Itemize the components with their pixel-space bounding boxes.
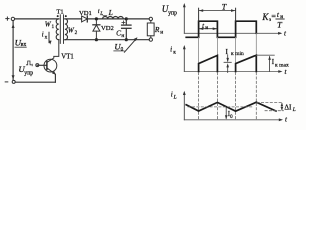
- svg-text:i: i: [42, 31, 44, 38]
- svg-text:и: и: [205, 25, 208, 31]
- svg-text:2: 2: [75, 30, 78, 36]
- label iL: [98, 8, 107, 17]
- wire bottom rail primary: [15, 81, 55, 83]
- svg-text:=: =: [271, 12, 276, 21]
- wire left vertical: [12, 21, 14, 81]
- terminal - of Uвх: [12, 80, 15, 83]
- dimension tи: [199, 22, 217, 31]
- wire secondary bottom rail: [65, 39, 149, 41]
- axis t bottom chart: [184, 115, 288, 123]
- arrow up on left wire: [12, 24, 15, 28]
- svg-text:упр: упр: [168, 10, 177, 16]
- diode VD1: [82, 16, 88, 22]
- waveform iк ramp2: [236, 55, 257, 71]
- label Cн: [116, 28, 124, 39]
- svg-text:к: к: [173, 49, 176, 55]
- arrow iк down: [49, 32, 52, 44]
- label U0: [114, 41, 124, 52]
- svg-text:i: i: [171, 90, 173, 98]
- capacitor Cн: [122, 21, 131, 39]
- label iк near W1: [42, 31, 48, 40]
- reference line iк max: [256, 54, 274, 56]
- label Uупр: [18, 64, 33, 76]
- dashed level valley: [265, 110, 283, 112]
- connector pulse1 rise to ramp: [198, 37, 200, 63]
- pulse glyph of control source: [26, 61, 31, 65]
- waveform iк ramp1: [199, 55, 218, 71]
- label W2: [68, 26, 78, 36]
- label iL waveform: [171, 90, 177, 100]
- diode VD2: [93, 21, 100, 39]
- dashed connector x4: [255, 73, 257, 120]
- wire base: [37, 64, 47, 66]
- label Uвх: [15, 38, 27, 48]
- terminal of control input: [36, 64, 39, 67]
- node junction VD2: [95, 17, 98, 20]
- plus sign of capacitor: [122, 21, 125, 24]
- dashed connector x2: [216, 73, 218, 120]
- axis t middle chart: [184, 68, 287, 76]
- wire secondary top: [65, 18, 82, 20]
- minus sign of input: [5, 81, 8, 83]
- dashed connector x3: [235, 73, 237, 120]
- dimension I0: [225, 107, 233, 120]
- node junction cap bottom: [125, 38, 128, 41]
- transformer T1 winding W1: [56, 19, 59, 40]
- terminal + of Uвх: [11, 17, 14, 20]
- node junction cap top: [125, 17, 128, 20]
- svg-text:1: 1: [52, 24, 55, 30]
- svg-text:i: i: [170, 46, 172, 54]
- formula Kз=tи/T: [261, 10, 284, 30]
- node junction VD2 bottom: [95, 38, 98, 41]
- connector pulse1 fall to ramp: [216, 37, 218, 55]
- svg-text:R: R: [154, 25, 160, 34]
- wire top rail primary: [15, 18, 59, 20]
- axis t top chart: [184, 30, 287, 38]
- label Uупр waveform: [162, 4, 177, 16]
- svg-text:к max: к max: [275, 62, 289, 68]
- svg-text:к min: к min: [231, 51, 244, 57]
- waveform Uупр: [186, 21, 256, 37]
- arrow down on left wire: [12, 75, 15, 79]
- svg-text:C: C: [116, 28, 121, 37]
- transistor VT1: [44, 40, 59, 82]
- dimension iк min: [224, 48, 244, 72]
- inductor L: [103, 16, 124, 18]
- svg-text:0: 0: [121, 47, 124, 53]
- label iк waveform: [170, 46, 176, 56]
- comma mark: [31, 64, 33, 66]
- dimension T: [199, 3, 236, 12]
- svg-text:упр: упр: [24, 70, 33, 76]
- svg-text:VD2: VD2: [101, 25, 114, 32]
- polarity dot W1: [57, 15, 59, 17]
- wire after VD1: [87, 18, 126, 20]
- axis y bottom chart: [183, 91, 186, 120]
- extension line pulse2 rise: [235, 8, 237, 21]
- connector pulse2 rise to ramp: [235, 37, 237, 63]
- dimension iк max: [268, 56, 289, 72]
- svg-text:VT1: VT1: [61, 53, 73, 60]
- dimension ΔIL: [281, 103, 296, 114]
- svg-text:L: L: [292, 107, 296, 113]
- transformer core: [60, 15, 63, 44]
- polarity dot W2: [65, 15, 67, 17]
- terminal output top: [149, 17, 152, 20]
- label Rн: [154, 25, 163, 36]
- svg-text:VD1: VD1: [79, 10, 92, 17]
- dashed connector x1: [198, 73, 200, 120]
- dashed level I0: [188, 106, 254, 108]
- svg-text:ΔI: ΔI: [284, 104, 292, 112]
- label W1: [45, 20, 55, 30]
- transformer winding W2: [65, 19, 68, 40]
- svg-text:н: н: [160, 29, 163, 35]
- svg-text:х: х: [45, 34, 48, 40]
- axis y top chart: [183, 3, 186, 33]
- svg-text:н: н: [121, 33, 124, 39]
- svg-text:T: T: [222, 3, 227, 12]
- wire to load top: [126, 18, 149, 20]
- plus sign of input: [6, 17, 9, 20]
- arrow U0: [124, 37, 137, 52]
- resistor Rн: [147, 21, 154, 38]
- connector pulse2 fall to ramp: [255, 33, 257, 55]
- waveform iL: [186, 102, 276, 111]
- axis y middle chart: [183, 45, 186, 72]
- svg-text:L: L: [173, 95, 177, 101]
- dashed level peak: [257, 102, 283, 104]
- svg-text:L: L: [108, 8, 113, 17]
- extension line pulse1 rise: [198, 8, 200, 21]
- svg-text:T1: T1: [56, 8, 63, 15]
- terminal output bottom: [149, 38, 152, 41]
